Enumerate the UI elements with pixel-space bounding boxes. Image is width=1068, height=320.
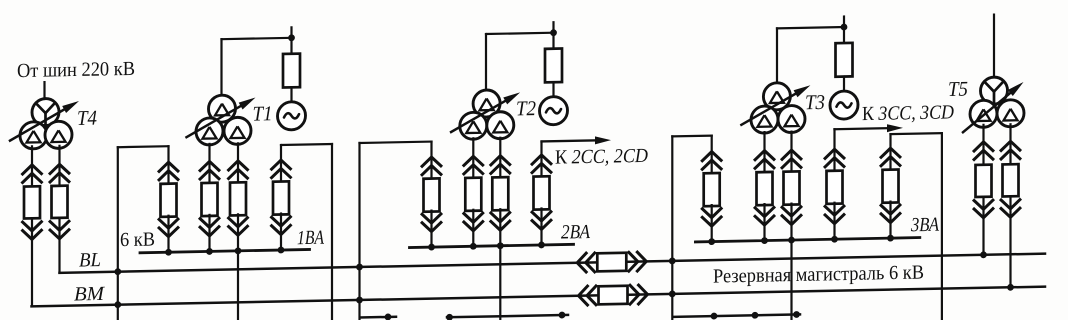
disconnector 1BA-4 lower contacts — [271, 224, 292, 234]
circuit breaker T4b — [52, 186, 68, 218]
disconnector 3BA-4 lower contacts — [824, 214, 845, 224]
wire 3BA-5 top link — [891, 133, 942, 134]
junction unit G3 — [841, 24, 848, 31]
circuit breaker T4a — [24, 186, 40, 218]
junction riser1-BM — [114, 301, 121, 308]
wire T2 feeder line down — [499, 246, 501, 320]
disconnector 3BA-3 upper contacts — [781, 150, 802, 160]
tap-changer arrow T2 — [451, 101, 505, 132]
transformer T1 HV winding — [209, 95, 236, 123]
wire 3BA-1 drop — [711, 136, 713, 173]
transformer T3 HV winding — [763, 83, 790, 111]
wire T5a down — [982, 197, 984, 255]
disconnector 3BA-5 lower contacts — [880, 212, 901, 222]
junction 1BA-1 — [165, 249, 172, 256]
wire unit G1 HV link — [222, 38, 292, 39]
sectionalizer on BL right contacts — [636, 251, 646, 272]
wire T4 branch a to BM — [31, 218, 33, 306]
sectionalizer on BM left contacts — [579, 285, 589, 306]
disconnector 3BA-4 upper contacts — [824, 149, 845, 159]
wire 2BA-1 to bus — [430, 211, 432, 248]
disconnector 2BA-3 upper contacts — [490, 156, 511, 166]
wire T5a drop — [982, 125, 984, 165]
wire T3 feeder line down — [790, 240, 792, 320]
generator breaker G1 — [283, 54, 300, 88]
tap-changer arrow T5 — [963, 93, 1010, 132]
disconnector 1BA-1 lower contacts — [158, 227, 179, 237]
junction 1BA-2 — [206, 248, 213, 255]
disconnector 1BA-2 lower contacts — [199, 226, 220, 236]
wire 3BA-2 drop — [763, 132, 765, 171]
svg-text:T2: T2 — [516, 96, 536, 120]
junction 3BA-5 — [887, 235, 894, 242]
disconnector 1BA-3 lower contacts — [228, 225, 249, 235]
bus fragment C — [674, 314, 800, 316]
wire 2BA-2 drop — [472, 138, 474, 177]
disconnector 3BA-2 upper contacts — [754, 150, 775, 160]
wire 2BA-4 to bus — [540, 208, 542, 245]
transformer T2 HV winding — [473, 90, 500, 118]
disconnector T5a upper contacts — [973, 142, 994, 152]
arrow to 3CC 3CD — [835, 128, 891, 129]
svg-text:От шин 220 кВ: От шин 220 кВ — [17, 58, 135, 82]
disconnector 3BA-2 lower contacts — [754, 215, 775, 225]
generator G1 — [278, 102, 306, 131]
circuit breaker 3BA-3 — [784, 171, 800, 204]
transformer T4 HV winding — [32, 98, 59, 126]
generator breaker G3 — [836, 43, 853, 77]
transformer T3 LV winding 2 — [778, 105, 805, 133]
circuit breaker 1BA-3 — [230, 182, 246, 215]
disconnector 2BA-1 upper contacts — [421, 157, 442, 167]
wire 1BA-4 drop — [280, 145, 282, 181]
disconnector T4a lower contacts — [22, 229, 43, 239]
transformer T4 LV winding 1 — [20, 122, 47, 150]
junction 3BA-1 — [708, 238, 715, 245]
bus 3BA — [695, 238, 919, 242]
bus 2BA — [410, 244, 574, 247]
junction fragB-2 — [559, 312, 566, 319]
wire riser to section 1BA — [117, 147, 119, 320]
wire 3BA-3 to bus — [790, 204, 792, 241]
wire G1 breaker lead — [290, 38, 292, 55]
wire 1BA-3 drop — [237, 143, 239, 181]
transformer T5 LV winding 1 — [970, 100, 997, 128]
disconnector 1BA-2 upper contacts — [199, 161, 220, 171]
svg-text:BL: BL — [79, 249, 101, 271]
wire G1 generator lead — [290, 87, 292, 102]
svg-text:T4: T4 — [77, 106, 97, 130]
node unit G2 HV stub — [552, 22, 554, 33]
wire 1BA-3 to bus — [237, 214, 239, 251]
node unit G3 HV stub — [843, 17, 845, 28]
transformer T3 LV winding 1 — [751, 106, 778, 134]
tap-changer arrow T3 — [741, 94, 795, 125]
wire 2BA-1 drop — [430, 142, 432, 178]
disconnector T4b lower contacts — [49, 229, 70, 239]
circuit breaker 1BA-1 — [161, 184, 177, 217]
junction 3BA-3 — [788, 237, 795, 244]
disconnector 2BA-2 lower contacts — [463, 221, 484, 231]
wire 1BA-4 to bus — [280, 214, 282, 251]
disconnector 2BA-4 upper contacts — [531, 155, 552, 165]
wire 3BA-5 drop — [889, 134, 891, 169]
circuit breaker 3BA-2 — [757, 172, 773, 205]
circuit breaker T5a — [976, 165, 992, 197]
junction 2BA-3 — [497, 242, 504, 249]
sectionalizer on BL left contacts — [577, 252, 587, 273]
circuit breaker 2BA-1 — [424, 178, 440, 211]
junction fragC-2 — [752, 312, 759, 319]
transformer T1 LV winding 1 — [196, 118, 223, 146]
wire T4 branch b to BL — [58, 218, 60, 273]
wire 1BA-2 drop — [208, 144, 210, 182]
disconnector T4a upper contacts — [22, 165, 43, 175]
svg-text:3ВА: 3ВА — [910, 214, 939, 237]
circuit breaker 3BA-1 — [704, 173, 720, 206]
svg-text:6 кВ: 6 кВ — [120, 228, 155, 251]
wire unit G2 HV link — [486, 33, 554, 34]
bus 1BA — [140, 249, 310, 252]
transformer T5 HV winding — [981, 77, 1008, 105]
wire 1BA-2 to bus — [208, 215, 210, 252]
junction 3BA-4 — [831, 236, 838, 243]
node unit G1 HV stub — [290, 27, 292, 38]
wire 3BA-1 to bus — [711, 205, 713, 242]
wire 2BA-3 to bus — [499, 209, 501, 246]
wire G2 breaker lead — [552, 33, 554, 50]
net BM reserve main lower — [32, 287, 1046, 307]
disconnector 2BA-3 lower contacts — [490, 220, 511, 230]
disconnector 2BA-1 lower contacts — [421, 221, 442, 231]
sectionalizer on BM right contacts — [638, 284, 648, 305]
disconnector 1BA-4 upper contacts — [271, 160, 292, 170]
circuit breaker 2BA-4 — [534, 176, 550, 209]
svg-text:BM: BM — [74, 283, 105, 306]
wire riser1 to branch link — [118, 145, 169, 148]
wire 3BA-4 to bus — [833, 203, 835, 240]
svg-text:T3: T3 — [805, 90, 825, 114]
disconnector 1BA-1 upper contacts — [158, 162, 179, 172]
circuit breaker T5b — [1003, 164, 1019, 196]
wire T5b down — [1009, 196, 1011, 287]
wire 1BA-1 drop — [167, 146, 169, 183]
disconnector T5a lower contacts — [973, 208, 994, 218]
circuit breaker 1BA-4 — [273, 181, 289, 214]
junction unit G1 — [288, 34, 295, 41]
svg-text:2ВА: 2ВА — [561, 221, 591, 244]
wire riser to section 3BA — [671, 136, 673, 320]
wire riser to section 2BA — [358, 143, 360, 320]
sectionalizer breaker on BM — [599, 286, 628, 305]
disconnector T5b lower contacts — [1000, 207, 1021, 217]
disconnector 1BA-3 upper contacts — [228, 161, 249, 171]
junction riser2-BM — [356, 297, 363, 304]
junction 2BA-4 — [538, 241, 545, 248]
wire T5b drop — [1009, 124, 1011, 164]
svg-text:T5: T5 — [948, 77, 968, 101]
junction riser3-BM — [669, 290, 676, 297]
svg-text:К 2СС, 2СD: К 2СС, 2СD — [555, 145, 648, 169]
transformer T5 LV winding 2 — [997, 100, 1024, 128]
transformer T2 LV winding 1 — [460, 112, 487, 140]
wire riser2 link — [360, 142, 432, 143]
junction 2BA-1 — [428, 244, 435, 251]
wire 1BA-1 to bus — [167, 216, 169, 253]
disconnector 3BA-5 upper contacts — [880, 148, 901, 158]
junction fragB-1 — [446, 314, 453, 320]
disconnector 3BA-3 lower contacts — [781, 214, 802, 224]
wire T4 HV lead — [43, 82, 45, 100]
generator breaker G2 — [545, 49, 562, 83]
disconnector 2BA-4 lower contacts — [531, 219, 552, 229]
bus fragment A — [360, 316, 396, 319]
transformer T1 LV winding 2 — [224, 117, 251, 145]
junction 1BA-4 — [278, 247, 285, 254]
disconnector 2BA-2 upper contacts — [463, 156, 484, 166]
junction unit G2 — [550, 29, 557, 36]
wire 3BA-4 drop — [833, 129, 835, 170]
disconnector T4b upper contacts — [49, 164, 70, 174]
tap-changer arrow T4 — [10, 109, 64, 140]
transformer T2 LV winding 2 — [487, 111, 514, 139]
wire 2BA-3 drop — [499, 138, 501, 177]
net BL reserve main upper — [60, 254, 1046, 273]
junction riser1-BL — [114, 268, 121, 275]
tap-changer arrow T1 — [187, 106, 241, 137]
wire G3 breaker lead — [843, 27, 845, 44]
wire 3BA-5 to bus — [889, 202, 891, 239]
wire 3BA-3 drop — [790, 132, 792, 171]
wire 3BA-2 to bus — [763, 204, 765, 241]
junction riser2-BL — [356, 264, 363, 271]
junction 3BA-2 — [761, 237, 768, 244]
circuit breaker 3BA-4 — [827, 171, 843, 204]
wire riser3 link — [672, 135, 711, 138]
wire T4 branch b drop — [58, 146, 60, 185]
junction T5b-BM — [1007, 284, 1014, 291]
wire 2BA-2 to bus — [472, 210, 474, 247]
disconnector T5b upper contacts — [1000, 141, 1021, 151]
wire feeder drop x332 — [331, 144, 333, 320]
wire 2BA-4 drop — [540, 141, 542, 175]
arrow to 2CC 2CD — [542, 140, 599, 141]
junction riser3-BL — [669, 257, 676, 264]
wire T1 feeder line down — [237, 251, 239, 320]
generator G2 — [540, 96, 568, 125]
wire G3 generator lead — [843, 77, 845, 92]
junction 1BA-3 — [235, 247, 242, 254]
svg-text:1BA: 1BA — [297, 227, 325, 250]
svg-text:T1: T1 — [253, 101, 273, 125]
junction 2BA-2 — [470, 243, 477, 250]
wire T5 HV lead — [993, 15, 995, 79]
disconnector 3BA-1 upper contacts — [701, 151, 722, 161]
svg-text:Резервная магистраль 6 кВ: Резервная магистраль 6 кВ — [713, 261, 924, 287]
transformer T4 LV winding 2 — [45, 121, 72, 149]
junction fragC-1 — [711, 313, 718, 320]
circuit breaker 2BA-3 — [492, 177, 508, 210]
circuit breaker 2BA-2 — [465, 178, 481, 211]
disconnector 3BA-1 lower contacts — [701, 216, 722, 226]
junction fragA — [385, 313, 392, 320]
wire G2 generator lead — [552, 82, 554, 97]
junction fragC-3 — [793, 311, 800, 318]
wire 1BA-4 top link — [281, 143, 332, 146]
wire unit G3 HV link — [777, 27, 844, 28]
wire T4 branch a drop — [31, 146, 33, 185]
circuit breaker 3BA-5 — [883, 169, 899, 202]
junction T5a-BL — [980, 251, 987, 258]
wire feeder drop x942 — [941, 133, 943, 320]
svg-text:К 3СС, 3СD: К 3СС, 3СD — [862, 101, 954, 125]
sectionalizer breaker on BL — [597, 253, 626, 272]
circuit breaker 1BA-2 — [202, 183, 218, 216]
bus fragment B — [447, 315, 568, 317]
generator G3 — [830, 91, 858, 120]
